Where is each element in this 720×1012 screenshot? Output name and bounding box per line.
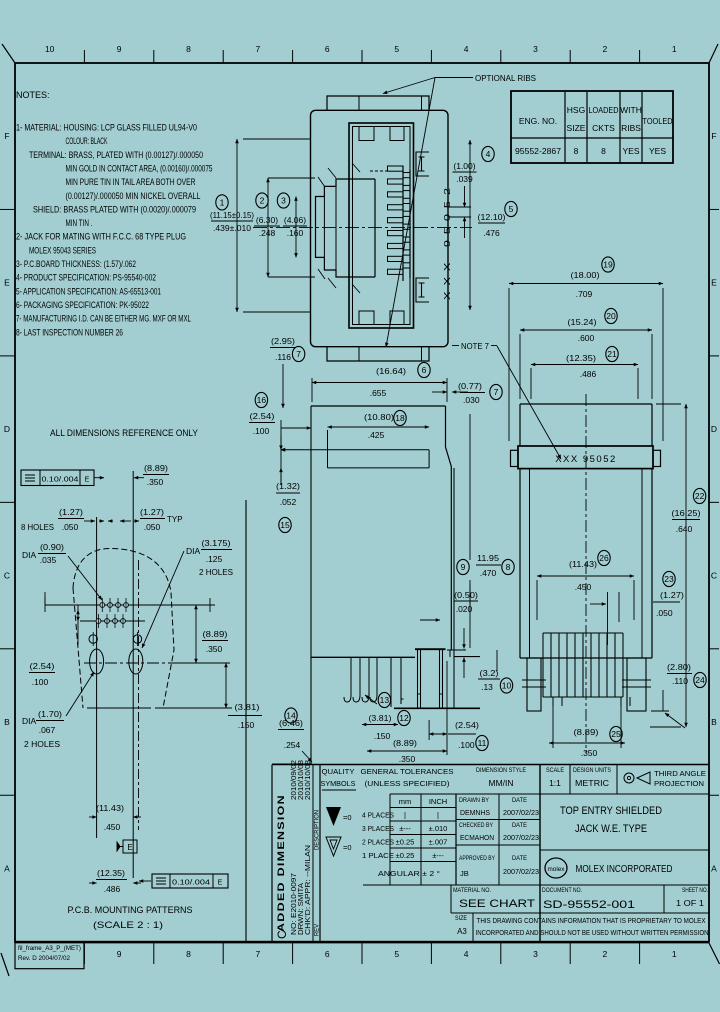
svg-text:COLOUR: BLACK: COLOUR: BLACK: [66, 136, 108, 146]
svg-text:0.10/.004: 0.10/.004: [172, 880, 210, 887]
svg-text:Rev. D 2004/07/02: Rev. D 2004/07/02: [18, 956, 71, 962]
svg-text:DATE: DATE: [512, 856, 527, 862]
svg-text:(18.00): (18.00): [571, 270, 600, 280]
svg-text:CHECKED BY: CHECKED BY: [459, 823, 493, 829]
svg-text:(1.32): (1.32): [276, 481, 300, 491]
svg-text:11: 11: [478, 738, 487, 748]
svg-text:2: 2: [603, 44, 608, 54]
svg-text:=0: =0: [343, 813, 352, 822]
svg-text:13: 13: [380, 695, 390, 705]
svg-text:F: F: [711, 131, 716, 141]
svg-text:1 PLACE: 1 PLACE: [362, 851, 394, 860]
svg-text:DIA: DIA: [186, 546, 201, 556]
svg-text:D: D: [4, 424, 10, 434]
svg-text:TOOLED: TOOLED: [643, 116, 673, 126]
svg-text:±0.25: ±0.25: [396, 838, 415, 847]
svg-text:(11.43): (11.43): [569, 559, 597, 569]
svg-text:2007/02/23: 2007/02/23: [503, 808, 539, 817]
svg-text:8: 8: [186, 949, 191, 959]
svg-text:(1.27): (1.27): [660, 590, 684, 600]
svg-text:B: B: [4, 717, 10, 727]
svg-text:5: 5: [394, 44, 399, 54]
svg-text:(11.43): (11.43): [96, 803, 124, 813]
svg-text:4- PRODUCT SPECIFICATION: PS-9: 4- PRODUCT SPECIFICATION: PS-95540-002: [16, 273, 156, 283]
svg-text:8: 8: [186, 44, 191, 54]
svg-text:.600: .600: [578, 333, 595, 343]
svg-text:(1.27): (1.27): [59, 507, 83, 517]
svg-text:(2.54): (2.54): [30, 661, 55, 671]
svg-text:SCALE: SCALE: [546, 768, 564, 774]
svg-text:MM/IN: MM/IN: [488, 778, 513, 788]
svg-text:E: E: [127, 843, 132, 852]
svg-text:ENG. NO.: ENG. NO.: [519, 116, 557, 126]
svg-text:mm: mm: [399, 797, 412, 806]
svg-text:(8.89): (8.89): [203, 629, 228, 639]
svg-text:E: E: [218, 880, 223, 887]
svg-text:(8.89): (8.89): [393, 738, 417, 748]
svg-text:PROJECTION: PROJECTION: [654, 779, 704, 788]
svg-text:INCH: INCH: [429, 797, 447, 806]
svg-text:MOLEX 95043 SERIES: MOLEX 95043 SERIES: [29, 245, 96, 255]
svg-text:.035: .035: [40, 555, 57, 565]
svg-text:23: 23: [664, 574, 674, 584]
svg-text:.100: .100: [32, 677, 49, 687]
svg-text:.486: .486: [104, 884, 121, 894]
svg-text:6: 6: [422, 365, 427, 375]
svg-text:.050: .050: [62, 522, 79, 532]
svg-text:.254: .254: [284, 740, 301, 750]
svg-text:2010/09/02: 2010/09/02: [291, 760, 298, 800]
svg-text:(1.27): (1.27): [140, 507, 164, 517]
svg-text:DIMENSION STYLE: DIMENSION STYLE: [476, 768, 526, 774]
svg-text:C: C: [275, 930, 289, 939]
svg-text:(0.50): (0.50): [454, 590, 478, 600]
svg-text:16: 16: [257, 395, 267, 405]
svg-text:.100: .100: [458, 740, 475, 750]
svg-text:.350: .350: [206, 644, 223, 654]
svg-text:.110: .110: [672, 676, 688, 686]
svg-text:(15.24): (15.24): [568, 317, 597, 327]
svg-text:24: 24: [695, 675, 705, 685]
svg-text:.450: .450: [104, 822, 121, 832]
svg-text:95552-2867: 95552-2867: [515, 146, 561, 156]
svg-text:2: 2: [260, 196, 265, 206]
svg-text:.655: .655: [370, 388, 387, 398]
svg-text:5- APPLICATION SPECIFICATION:: 5- APPLICATION SPECIFICATION: AS-65513-0…: [16, 286, 161, 296]
svg-text:.350: .350: [399, 754, 416, 764]
svg-text:TOP ENTRY SHIELDED: TOP ENTRY SHIELDED: [560, 805, 662, 817]
svg-text:2 HOLES: 2 HOLES: [24, 739, 60, 749]
svg-text:molex: molex: [548, 866, 566, 873]
svg-text:8: 8: [574, 146, 579, 156]
svg-text:9: 9: [117, 44, 122, 54]
svg-text:YES: YES: [622, 146, 639, 156]
svg-text:2007/02/23: 2007/02/23: [503, 867, 539, 876]
svg-text:1- MATERIAL: HOUSING: LCP GLAS: 1- MATERIAL: HOUSING: LCP GLASS FILLED U…: [16, 123, 197, 133]
svg-text:2 HOLES: 2 HOLES: [199, 567, 233, 577]
svg-text:(12.35): (12.35): [97, 868, 125, 878]
svg-text:SD-95552-001: SD-95552-001: [543, 899, 635, 911]
svg-text:11.95: 11.95: [477, 553, 499, 563]
svg-text:.248: .248: [259, 228, 276, 238]
svg-text:(16.64): (16.64): [376, 366, 406, 376]
svg-text:DIA: DIA: [22, 550, 37, 560]
svg-text:|: |: [404, 811, 406, 820]
svg-text:ECMAHON: ECMAHON: [460, 833, 494, 842]
svg-text:7: 7: [256, 44, 261, 54]
svg-text:DESIGN UNITS: DESIGN UNITS: [573, 768, 611, 774]
svg-text:1 OF 1: 1 OF 1: [676, 898, 704, 908]
svg-text:1: 1: [672, 949, 677, 959]
svg-text:REV: REV: [315, 924, 321, 936]
svg-text:.150: .150: [374, 731, 391, 741]
svg-text:INCORPORATED AND SHOULD NOT BE: INCORPORATED AND SHOULD NOT BE USED WITH…: [476, 930, 709, 937]
svg-text:(2.54): (2.54): [455, 720, 479, 730]
svg-text:P.C.B. MOUNTING PATTERNS: P.C.B. MOUNTING PATTERNS: [68, 905, 193, 916]
svg-text:10: 10: [45, 44, 55, 54]
svg-text:SHEET NO.: SHEET NO.: [682, 888, 708, 894]
svg-text:JACK W.E. TYPE: JACK W.E. TYPE: [575, 823, 647, 835]
svg-text:C: C: [4, 571, 10, 581]
svg-text:(12.35): (12.35): [566, 353, 596, 363]
svg-text:METRIC: METRIC: [575, 778, 609, 788]
svg-text:2- JACK FOR MATING WITH F.C.C.: 2- JACK FOR MATING WITH F.C.C. 68 TYPE P…: [16, 232, 186, 242]
svg-text:ADDED DIMENSION: ADDED DIMENSION: [276, 794, 287, 932]
svg-text:25: 25: [611, 729, 621, 739]
svg-text:(3.2): (3.2): [480, 668, 499, 678]
svg-text:SHIELD: BRASS PLATED WITH (0.: SHIELD: BRASS PLATED WITH (0.0020)/.0000…: [33, 204, 196, 214]
svg-text:1: 1: [672, 44, 677, 54]
svg-text:6- PACKAGING SPECIFICATION: PK: 6- PACKAGING SPECIFICATION: PK-95022: [16, 300, 149, 310]
svg-text:.640: .640: [676, 524, 693, 534]
svg-text:fil_frame_A3_P_(MET): fil_frame_A3_P_(MET): [18, 946, 81, 952]
svg-text:ALL DIMENSIONS REFERENCE ONLY: ALL DIMENSIONS REFERENCE ONLY: [50, 428, 199, 439]
svg-text:(2.95): (2.95): [271, 336, 295, 346]
svg-text:.039: .039: [456, 174, 473, 184]
svg-text:(6.30): (6.30): [256, 215, 278, 225]
svg-text:SEE CHART: SEE CHART: [459, 898, 535, 910]
svg-text:.116: .116: [275, 352, 291, 362]
svg-text:(2.80): (2.80): [667, 662, 691, 672]
svg-text:NOTE 7: NOTE 7: [461, 341, 489, 351]
svg-text:E: E: [4, 278, 10, 288]
svg-text:(0.00127)/.000050 MIN NICKEL O: (0.00127)/.000050 MIN NICKEL OVERALL: [66, 191, 201, 201]
svg-text:NO: E2010-0097: NO: E2010-0097: [291, 873, 298, 935]
svg-text:.350: .350: [147, 477, 164, 487]
svg-text:.476: .476: [483, 228, 500, 238]
svg-text:0.10/.004: 0.10/.004: [42, 477, 79, 484]
svg-text:1:1: 1:1: [549, 778, 561, 788]
svg-text:(UNLESS SPECIFIED): (UNLESS SPECIFIED): [365, 779, 451, 788]
svg-text:(2.54): (2.54): [250, 411, 275, 421]
svg-text:RIBS: RIBS: [621, 123, 641, 133]
svg-text:7: 7: [494, 387, 499, 397]
svg-text:THIRD ANGLE: THIRD ANGLE: [654, 769, 706, 778]
svg-text:6: 6: [325, 949, 330, 959]
svg-text:8: 8: [506, 562, 511, 572]
svg-text:MATERIAL NO.: MATERIAL NO.: [453, 888, 491, 894]
svg-text:21: 21: [607, 349, 617, 359]
svg-text:4: 4: [486, 149, 491, 159]
svg-text:.052: .052: [280, 497, 297, 507]
svg-text:(SCALE 2 : 1): (SCALE 2 : 1): [93, 920, 163, 931]
svg-text:A: A: [711, 863, 717, 873]
svg-text:F: F: [4, 131, 9, 141]
svg-text:YES: YES: [649, 146, 666, 156]
svg-text:.100: .100: [253, 426, 270, 436]
svg-text:E: E: [711, 278, 717, 288]
svg-text:2010/10/08: 2010/10/08: [305, 760, 312, 800]
svg-text:MOLEX INCORPORATED: MOLEX INCORPORATED: [576, 864, 673, 875]
svg-text:(11.15±0.15): (11.15±0.15): [210, 210, 254, 220]
svg-text:8 HOLES: 8 HOLES: [21, 522, 54, 532]
svg-text:D: D: [711, 424, 717, 434]
svg-text:QUALITY: QUALITY: [322, 767, 355, 776]
svg-text:3: 3: [533, 949, 538, 959]
svg-text:DATE: DATE: [512, 798, 527, 804]
svg-text:20: 20: [606, 311, 616, 321]
svg-text:OPTIONAL RIBS: OPTIONAL RIBS: [475, 73, 536, 83]
svg-text:3: 3: [533, 44, 538, 54]
svg-text:GENERAL TOLERANCES: GENERAL TOLERANCES: [361, 767, 454, 776]
svg-text:CKTS: CKTS: [592, 123, 615, 133]
svg-text:DRWN: SMITA: DRWN: SMITA: [298, 883, 305, 935]
svg-text:(0.77): (0.77): [458, 381, 482, 391]
svg-text:2007/02/23: 2007/02/23: [503, 833, 539, 842]
svg-text:5: 5: [509, 204, 514, 214]
svg-text:DEMNHS: DEMNHS: [460, 808, 490, 817]
svg-text:.050: .050: [656, 608, 673, 618]
svg-text:.050: .050: [144, 522, 161, 532]
svg-text:2010/10/08: 2010/10/08: [298, 760, 305, 800]
svg-text:2: 2: [603, 949, 608, 959]
svg-text:(6.46): (6.46): [279, 718, 303, 728]
svg-text:26: 26: [599, 553, 609, 563]
svg-text:(0.90): (0.90): [40, 542, 64, 552]
svg-text:6: 6: [325, 44, 330, 54]
svg-text:.450: .450: [575, 582, 592, 592]
svg-text:.439±.010: .439±.010: [213, 223, 251, 233]
svg-text:LOADED: LOADED: [589, 105, 619, 115]
svg-text:C: C: [711, 571, 717, 581]
svg-text:7: 7: [256, 949, 261, 959]
svg-text:±0.25: ±0.25: [396, 851, 415, 860]
svg-text:.125: .125: [206, 554, 223, 564]
svg-text:SYMBOLS: SYMBOLS: [321, 779, 356, 788]
svg-text:19: 19: [603, 260, 613, 270]
svg-text:.030: .030: [463, 395, 480, 405]
svg-text:THIS DRAWING CONTAINS INFORMAT: THIS DRAWING CONTAINS INFORMATION THAT I…: [477, 918, 706, 925]
svg-text:5: 5: [394, 949, 399, 959]
svg-text:DESCRIPTION: DESCRIPTION: [315, 810, 321, 850]
svg-text:15: 15: [280, 520, 290, 530]
svg-text:B: B: [711, 717, 717, 727]
svg-text:DATE: DATE: [512, 823, 527, 829]
svg-text:.709: .709: [576, 289, 593, 299]
svg-text:APPROVED BY: APPROVED BY: [459, 856, 495, 862]
svg-text:7: 7: [296, 349, 301, 359]
svg-text:(12.10): (12.10): [478, 212, 506, 222]
svg-text:3- P.C.BOARD THICKNESS: (1.57): 3- P.C.BOARD THICKNESS: (1.57)/.062: [16, 259, 136, 269]
svg-text:A: A: [4, 863, 10, 873]
svg-text:(8.89): (8.89): [574, 727, 599, 737]
svg-text:.160: .160: [287, 228, 304, 238]
svg-text:7- MANUFACTURING I.D. CAN BE E: 7- MANUFACTURING I.D. CAN BE EITHER MG. …: [16, 314, 191, 324]
svg-text:DOCUMENT NO.: DOCUMENT NO.: [542, 888, 582, 894]
svg-text:4 PLACES: 4 PLACES: [362, 811, 394, 820]
svg-text:NOTES:: NOTES:: [16, 90, 50, 100]
svg-text:MIN TIN .: MIN TIN .: [66, 218, 93, 228]
svg-text:(3.81): (3.81): [369, 713, 392, 723]
svg-text:3 PLACES: 3 PLACES: [362, 824, 394, 833]
svg-text:(10.80): (10.80): [364, 412, 394, 422]
svg-text:JB: JB: [460, 869, 469, 878]
svg-text:=0: =0: [343, 843, 352, 852]
svg-text:SIZE: SIZE: [567, 123, 586, 133]
svg-text:A3: A3: [457, 927, 467, 936]
svg-text:4: 4: [464, 44, 469, 54]
svg-text:9: 9: [461, 562, 466, 572]
svg-text:1: 1: [220, 198, 225, 208]
svg-text:MIN GOLD IN CONTACT AREA, (0.0: MIN GOLD IN CONTACT AREA, (0.00160)/.000…: [66, 163, 213, 173]
svg-text:±.007: ±.007: [429, 838, 448, 847]
svg-text:.13: .13: [481, 682, 493, 692]
svg-text:ANGULAR ± 2 °: ANGULAR ± 2 °: [378, 869, 440, 878]
svg-text:18: 18: [395, 413, 405, 423]
svg-text:8: 8: [601, 146, 606, 156]
svg-text:MIN PURE TIN IN TAIL AREA BOTH: MIN PURE TIN IN TAIL AREA BOTH OVER: [66, 177, 196, 187]
svg-text:(3.175): (3.175): [202, 538, 231, 548]
svg-text:XXX 95052: XXX 95052: [442, 182, 452, 300]
svg-text:SIZE: SIZE: [455, 916, 467, 922]
svg-text:22: 22: [695, 491, 705, 501]
svg-text:WITH: WITH: [620, 105, 642, 115]
svg-text:12: 12: [399, 713, 409, 723]
svg-text:HSG: HSG: [567, 105, 585, 115]
svg-text:(1.70): (1.70): [38, 709, 62, 719]
svg-text:(4.06): (4.06): [284, 215, 306, 225]
svg-text:10: 10: [502, 681, 512, 691]
svg-text:(8.89): (8.89): [144, 463, 168, 473]
svg-text:.067: .067: [39, 725, 56, 735]
svg-text:3: 3: [281, 196, 286, 206]
svg-text:DIA: DIA: [22, 716, 37, 726]
svg-text:DRAWN BY: DRAWN BY: [459, 798, 489, 804]
svg-text:TERMINAL: BRASS, PLATED WITH (: TERMINAL: BRASS, PLATED WITH (0.00127)/.…: [29, 150, 203, 160]
svg-text:.486: .486: [580, 369, 597, 379]
svg-text:±.010: ±.010: [429, 824, 448, 833]
svg-text:.470: .470: [480, 568, 497, 578]
svg-text:CHK'D: APPR: --MILAN: CHK'D: APPR: --MILAN: [305, 845, 312, 935]
svg-text:2 PLACES: 2 PLACES: [362, 838, 394, 847]
svg-text:4: 4: [464, 949, 469, 959]
svg-text:.350: .350: [581, 748, 598, 758]
svg-text:(1.00): (1.00): [453, 161, 475, 171]
svg-text:±---: ±---: [399, 824, 411, 833]
svg-text:|: |: [437, 811, 439, 820]
svg-text:8- LAST INSPECTION NUMBER 26: 8- LAST INSPECTION NUMBER 26: [16, 327, 123, 337]
svg-text:(3.81): (3.81): [235, 702, 260, 712]
svg-text:TYP: TYP: [167, 515, 183, 524]
svg-text:±---: ±---: [432, 851, 444, 860]
svg-text:9: 9: [117, 949, 122, 959]
svg-text:E: E: [85, 477, 90, 484]
svg-text:.425: .425: [368, 430, 385, 440]
